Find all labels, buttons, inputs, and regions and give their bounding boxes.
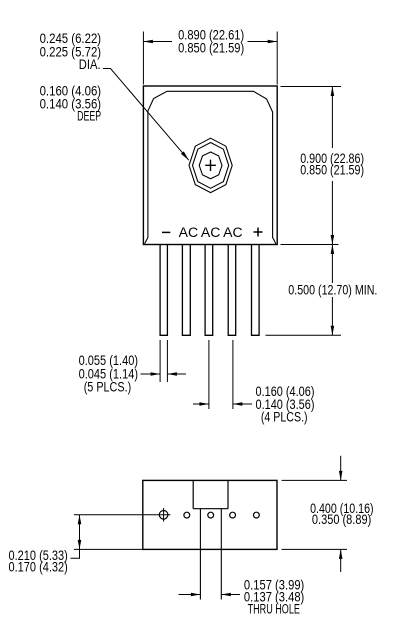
mounting boss inner octagon (recess)	[199, 152, 222, 179]
width dimension extension line left	[142, 32, 144, 85]
svg-text:0.350 (8.89): 0.350 (8.89)	[312, 512, 371, 527]
lead 3 (AC)	[205, 245, 213, 336]
lead hole 5	[254, 512, 260, 518]
mounting boss outer octagon ring	[189, 138, 232, 192]
lead hole 2	[184, 512, 190, 518]
lead pitch dimension arrows 0.160/0.140	[193, 403, 252, 405]
lead length dimension line 0.500 MIN	[331, 245, 333, 336]
mounting thru hole with center cross	[159, 511, 168, 520]
svg-text:(5 PLCS.): (5 PLCS.)	[84, 379, 132, 394]
lead 1 (minus)	[160, 245, 167, 336]
lead width extension lines (lead 1)	[160, 340, 167, 382]
lead hole 4	[230, 512, 236, 518]
lead width dimension arrows 0.055/0.045	[141, 373, 187, 375]
bottom edge extension line left	[74, 548, 143, 550]
package face inner outline with chamfered corners	[145, 91, 276, 244]
leader line from DIA. to boss	[103, 69, 189, 161]
index tab at top of bottom view	[193, 480, 228, 508]
mounting boss middle octagon ring	[193, 143, 229, 189]
leader elbow to 0.210 text	[71, 549, 80, 558]
center slot lines (also extension lines for thru hole dim)	[200, 509, 221, 600]
svg-text:AC: AC	[201, 225, 221, 240]
svg-text:DEEP: DEEP	[77, 109, 101, 124]
hole centerline extending left	[74, 514, 157, 516]
thru hole dimension arrows 0.157/0.137	[179, 594, 241, 596]
hole offset dimension line 0.210/0.170	[79, 515, 81, 550]
center cross mark of boss	[205, 160, 216, 171]
svg-text:0.500 (12.70) MIN.: 0.500 (12.70) MIN.	[288, 283, 377, 298]
svg-text:THRU HOLE: THRU HOLE	[248, 601, 300, 616]
svg-text:0.850 (21.59): 0.850 (21.59)	[178, 40, 244, 55]
svg-text:(4 PLCS.): (4 PLCS.)	[261, 410, 308, 425]
lead 5 (plus)	[252, 245, 260, 336]
terminal label plus sign	[254, 228, 263, 237]
body height extension lines right of bottom view	[282, 480, 348, 549]
svg-text:AC: AC	[179, 225, 199, 240]
terminal label minus sign	[162, 231, 170, 233]
width dimension extension line right	[276, 32, 278, 85]
lead 2 (AC)	[182, 245, 190, 336]
body height dimension 0.400/0.350	[340, 456, 342, 572]
lead hole 3	[208, 512, 214, 518]
bottom view body outline	[143, 480, 277, 549]
package body outline (front view)	[143, 86, 277, 245]
svg-text:AC: AC	[223, 225, 243, 240]
svg-text:0.170 (4.32): 0.170 (4.32)	[9, 560, 68, 575]
lead length extension line at lead tips	[266, 334, 342, 336]
height dimension line 0.900/0.850	[331, 87, 333, 245]
width dimension line 0.890/0.850	[143, 41, 277, 43]
svg-text:DIA.: DIA.	[79, 57, 101, 72]
lead 4 (AC)	[228, 245, 236, 336]
svg-text:0.850 (21.59): 0.850 (21.59)	[300, 163, 364, 178]
height dimension extension lines right	[281, 87, 342, 245]
lead pitch extension lines (leads 3 and 4)	[209, 340, 233, 409]
